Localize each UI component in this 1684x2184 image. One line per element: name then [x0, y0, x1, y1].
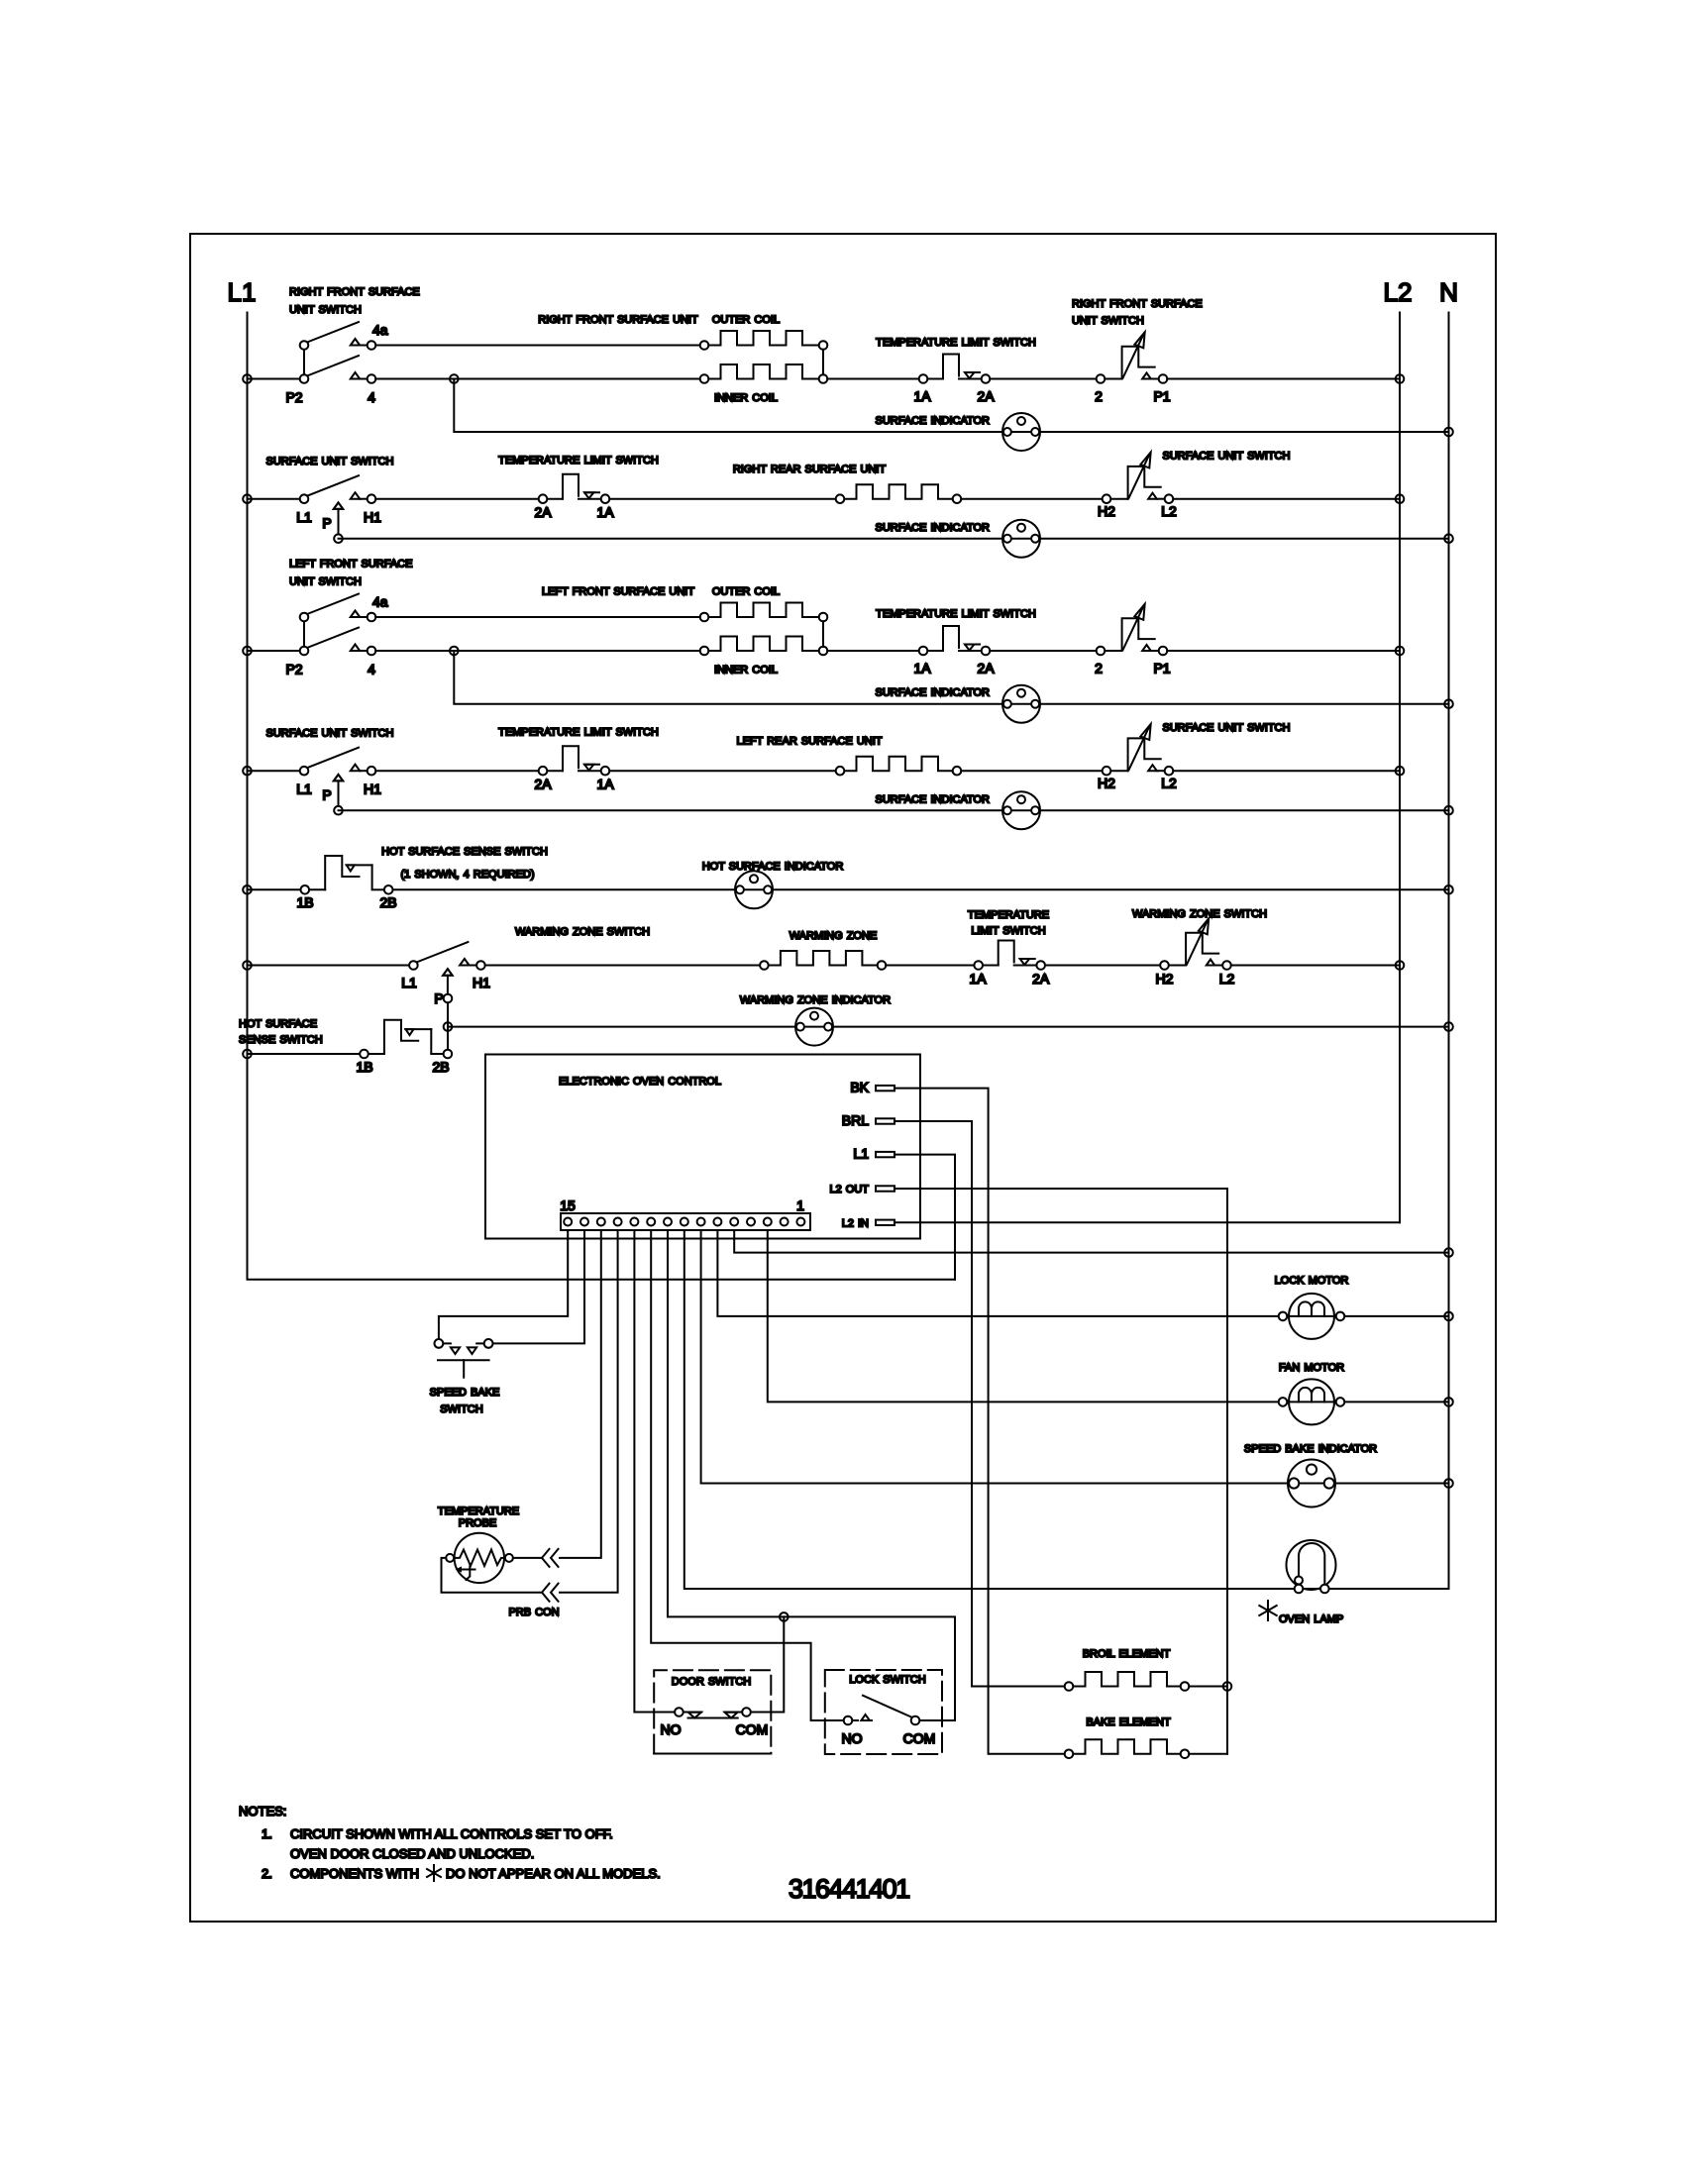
svg-text:CIRCUIT SHOWN WITH ALL CONTROL: CIRCUIT SHOWN WITH ALL CONTROLS SET TO O… [290, 1826, 613, 1841]
wire pin11 to door switch NO [634, 1230, 675, 1713]
svg-text:PRB CON: PRB CON [508, 1607, 559, 1618]
wire BRL to broil element [895, 1121, 1065, 1687]
svg-text:NO: NO [842, 1730, 863, 1746]
wire row3 coil join [822, 621, 824, 646]
wire row2 coil to H2 [961, 498, 1102, 500]
node row6 indicator N [1444, 1022, 1453, 1031]
svg-text:FAN MOTOR: FAN MOTOR [1279, 1362, 1344, 1374]
wire row3 indicator drop [454, 651, 1448, 704]
svg-text:BK: BK [850, 1080, 869, 1095]
svg-text:2A: 2A [534, 777, 552, 792]
wire row2 H1 to 2A [375, 498, 538, 500]
coil row4 left rear surface unit [836, 757, 962, 776]
indicator row4 surface indicator [1002, 791, 1040, 829]
svg-text:LEFT FRONT SURFACE UNIT: LEFT FRONT SURFACE UNIT [542, 586, 694, 598]
svg-text:4: 4 [368, 662, 375, 677]
wire row4 L1 to switch [248, 770, 300, 772]
wire row4 indicator row [339, 809, 1449, 811]
node row6 L2 [1396, 961, 1405, 970]
svg-text:TEMPERATURE: TEMPERATURE [438, 1506, 519, 1517]
wire pin8 to oven lamp row [684, 1230, 1449, 1589]
wire row5 L1 to 1B [248, 888, 301, 890]
wire row2 1A to coil [609, 498, 835, 500]
svg-text:OVEN DOOR CLOSED AND UNLOCKED.: OVEN DOOR CLOSED AND UNLOCKED. [290, 1846, 534, 1861]
wire door COM riser [751, 1616, 785, 1712]
svg-text:BRL: BRL [842, 1112, 869, 1128]
node row2 L2 [1396, 494, 1405, 503]
node row1 L1 [243, 374, 252, 383]
coil row3 inner [700, 637, 828, 656]
wire row4 H1 to 2A [375, 770, 538, 772]
svg-text:P2: P2 [285, 662, 302, 677]
svg-text:1A: 1A [913, 388, 931, 404]
svg-text:WARMING ZONE: WARMING ZONE [789, 930, 878, 942]
svg-text:TEMPERATURE LIMIT SWITCH: TEMPERATURE LIMIT SWITCH [498, 727, 659, 739]
wire row1 indicator drop [454, 379, 1448, 433]
switch row6 temperature limit switch [974, 941, 1045, 970]
svg-text:SPEED BAKE: SPEED BAKE [430, 1387, 500, 1399]
svg-text:1B: 1B [296, 894, 313, 910]
svg-text:2B: 2B [432, 1059, 449, 1075]
wire row4 L2contact to L2 rail [1173, 770, 1400, 772]
node row1 L2 [1396, 374, 1405, 383]
svg-text:SURFACE UNIT SWITCH: SURFACE UNIT SWITCH [266, 728, 394, 740]
svg-text:ELECTRONIC OVEN CONTROL: ELECTRONIC OVEN CONTROL [559, 1076, 721, 1088]
coil row6 warming zone [760, 951, 886, 970]
coil broil element [1065, 1672, 1190, 1691]
node row7 L1 [243, 1050, 252, 1059]
wire row6 coil to 1A [886, 965, 974, 967]
svg-text:SURFACE UNIT SWITCH: SURFACE UNIT SWITCH [266, 456, 394, 468]
node row4 indicator N [1444, 806, 1453, 815]
node row2 indicator N [1444, 534, 1453, 543]
svg-text:INNER COIL: INNER COIL [714, 665, 778, 676]
svg-text:UNIT SWITCH: UNIT SWITCH [289, 304, 362, 316]
svg-text:L1: L1 [296, 509, 312, 525]
svg-text:H2: H2 [1156, 971, 1174, 987]
svg-text:H2: H2 [1098, 776, 1115, 791]
svg-text:2B: 2B [379, 894, 396, 910]
svg-text:SURFACE INDICATOR: SURFACE INDICATOR [876, 687, 991, 699]
contact row2 P pickoff [334, 534, 343, 543]
wire row3 4 to inner coil [375, 650, 699, 652]
svg-text:L1: L1 [853, 1146, 869, 1162]
switch row2 temperature limit switch [539, 474, 610, 503]
wire row4 coil to H2 [961, 770, 1102, 772]
contact row6 P pickoff [444, 994, 453, 1003]
switch row6 warming zone switch (L1/P/H1) [409, 942, 485, 994]
svg-text:SURFACE INDICATOR: SURFACE INDICATOR [876, 522, 991, 534]
symbol asterisk oven lamp [1259, 1601, 1276, 1620]
wire row1 4a to outer coil [375, 345, 699, 347]
coil row3 outer [700, 603, 828, 622]
wire L1 rail [248, 313, 956, 1280]
svg-text:WARMING ZONE SWITCH: WARMING ZONE SWITCH [515, 926, 650, 938]
node row4 L2 [1396, 767, 1405, 776]
svg-text:L2: L2 [1161, 503, 1177, 519]
indicator row2 surface indicator [1002, 520, 1040, 558]
switch row6 right warming zone switch (H2/L2) [1160, 918, 1231, 970]
symbol asterisk note 2 [427, 1865, 441, 1881]
wire probe right lead [513, 1557, 542, 1559]
wire L2 OUT down to bake [895, 1189, 1227, 1754]
wire pin15 to speed bake switch [439, 1230, 568, 1339]
switch row4 surface unit switch (L1/P/H1) [300, 748, 376, 806]
wire pin10 to lock switch NO [651, 1230, 844, 1720]
wire pin9 to lock switch COM [668, 1230, 955, 1720]
svg-text:LOCK MOTOR: LOCK MOTOR [1275, 1275, 1349, 1287]
wire row7 L1 to 1B [248, 1053, 361, 1055]
motor lock motor [1279, 1294, 1345, 1339]
box electronic oven control [485, 1055, 920, 1239]
connector PRB CON chevrons [542, 1549, 559, 1602]
svg-text:1A: 1A [913, 661, 931, 676]
svg-text:1: 1 [796, 1197, 804, 1213]
svg-text:L2: L2 [1161, 776, 1177, 791]
wire row2 L1 to switch [248, 498, 300, 500]
wire row3 L1 to P2 [248, 650, 300, 652]
node fan motor N [1444, 1398, 1453, 1406]
svg-text:4a: 4a [372, 322, 388, 338]
switch lock switch contacts NO/COM [844, 1696, 920, 1725]
svg-text:COM: COM [736, 1721, 769, 1737]
wire row3 4a to outer coil [375, 616, 699, 618]
wire L2 IN to L2 rail [895, 1221, 1400, 1223]
svg-text:N: N [1439, 277, 1458, 307]
wire row1 4 to inner coil [375, 378, 699, 380]
svg-text:L2: L2 [1219, 971, 1235, 987]
box terminal strip [561, 1213, 810, 1230]
coil row2 right rear surface unit [836, 484, 962, 503]
svg-text:BROIL ELEMENT: BROIL ELEMENT [1083, 1648, 1171, 1660]
svg-text:H1: H1 [473, 975, 490, 990]
switch row5 hot surface sense switch (1B/2B) [301, 856, 393, 894]
svg-text:COM: COM [903, 1730, 936, 1746]
wire probe left lead [442, 1558, 543, 1593]
node lock motor N [1444, 1312, 1453, 1321]
switch row4 temperature limit switch [539, 746, 610, 775]
svg-text:SWITCH: SWITCH [440, 1404, 482, 1415]
wire pin13 to probe plug [560, 1230, 601, 1558]
switch row3 right infinite switch (2/P1) [1097, 604, 1168, 656]
switch row1 temperature limit switch [919, 355, 991, 383]
svg-text:DO NOT APPEAR ON ALL MODELS.: DO NOT APPEAR ON ALL MODELS. [446, 1866, 661, 1881]
svg-text:H1: H1 [364, 781, 381, 797]
svg-text:SURFACE UNIT SWITCH: SURFACE UNIT SWITCH [1163, 451, 1291, 463]
wire bake to L2OUT [1189, 1753, 1227, 1755]
coil row1 outer [700, 331, 828, 350]
svg-text:OUTER COIL: OUTER COIL [712, 314, 780, 326]
wire row3 2A to 2 [990, 650, 1096, 652]
node row3 indicator N [1444, 699, 1453, 708]
svg-text:L1: L1 [228, 277, 257, 307]
svg-text:SURFACE UNIT SWITCH: SURFACE UNIT SWITCH [1163, 722, 1291, 734]
wire broil to L2OUT [1189, 1686, 1227, 1688]
svg-text:P: P [322, 515, 331, 531]
wire pin5 to N rail [734, 1230, 1448, 1253]
contact row4 P pickoff [334, 806, 343, 815]
svg-text:P1: P1 [1153, 661, 1170, 676]
switch row1 right-front surface unit switch (P2/4a/4) [300, 322, 376, 383]
svg-text:2: 2 [1095, 388, 1103, 404]
node row6 L1 [243, 961, 252, 970]
wire pin3 to fan motor row [768, 1230, 1449, 1402]
wire row1 coil join [822, 350, 824, 374]
wire row6 2A to H2 [1045, 965, 1160, 967]
svg-text:(1 SHOWN, 4 REQUIRED): (1 SHOWN, 4 REQUIRED) [400, 869, 534, 881]
terminal strip pins 1-15 [564, 1218, 804, 1226]
wire L2 rail [1399, 313, 1401, 1223]
svg-text:LIMIT SWITCH: LIMIT SWITCH [971, 925, 1045, 937]
wire row2 L2contact to L2 rail [1173, 498, 1400, 500]
svg-text:316441401: 316441401 [789, 1874, 909, 1904]
svg-text:4a: 4a [372, 594, 388, 610]
svg-text:H2: H2 [1098, 503, 1115, 519]
box lock switch (dashed) [825, 1670, 942, 1754]
svg-text:2A: 2A [534, 504, 552, 520]
svg-text:L1: L1 [296, 781, 312, 797]
svg-text:NO: NO [661, 1721, 682, 1737]
svg-text:HOT SURFACE SENSE SWITCH: HOT SURFACE SENSE SWITCH [381, 846, 548, 858]
switch door switch contacts NO/COM [675, 1708, 751, 1717]
svg-text:H1: H1 [364, 509, 381, 525]
svg-text:P: P [434, 990, 443, 1006]
svg-text:HOT SURFACE INDICATOR: HOT SURFACE INDICATOR [702, 861, 844, 873]
svg-text:SURFACE INDICATOR: SURFACE INDICATOR [876, 794, 991, 806]
svg-text:RIGHT FRONT SURFACE: RIGHT FRONT SURFACE [289, 286, 420, 298]
wire row1 coil to 1A [827, 378, 918, 380]
svg-text:P2: P2 [285, 389, 302, 405]
indicator row3 surface indicator [1002, 685, 1040, 723]
indicator speed bake indicator [1288, 1460, 1335, 1508]
svg-text:1B: 1B [356, 1059, 372, 1075]
wire row6 P vertical lower [447, 1002, 449, 1049]
svg-text:RIGHT FRONT SURFACE: RIGHT FRONT SURFACE [1072, 298, 1203, 310]
wire row3 P1 to L2 [1167, 650, 1400, 652]
node pin5 N [1444, 1248, 1453, 1257]
svg-text:P: P [322, 787, 331, 803]
svg-text:UNIT SWITCH: UNIT SWITCH [1072, 315, 1144, 327]
lamp oven lamp [1287, 1540, 1336, 1593]
wire L1 terminal to L1 rail [895, 1155, 955, 1280]
wire row6 L2contact to rail [1231, 965, 1400, 967]
svg-text:PROBE: PROBE [459, 1517, 497, 1529]
node broil junction L2OUT [1223, 1682, 1232, 1691]
svg-text:1.: 1. [262, 1826, 272, 1841]
svg-text:15: 15 [560, 1197, 576, 1213]
svg-text:SURFACE INDICATOR: SURFACE INDICATOR [876, 415, 991, 427]
node door COM junction [780, 1612, 789, 1621]
node row1 junction to indicator [450, 374, 459, 383]
wire row4 1A to coil [609, 770, 835, 772]
node row3 L1 [243, 647, 252, 656]
node row6 indicator junction [444, 1022, 453, 1031]
svg-text:LEFT FRONT SURFACE: LEFT FRONT SURFACE [289, 559, 412, 571]
border frame [190, 234, 1496, 1922]
svg-text:L2 IN: L2 IN [842, 1217, 869, 1229]
svg-text:DOOR SWITCH: DOOR SWITCH [672, 1676, 751, 1688]
wire row6 H1 to coil [485, 965, 760, 967]
wire pin6 to lock motor row [717, 1230, 1448, 1316]
wire row1 P1 to L2 [1167, 378, 1400, 380]
svg-text:4: 4 [368, 389, 375, 405]
switch row4 right infinite switch (H2/L2) [1103, 724, 1174, 776]
svg-text:WARMING ZONE SWITCH: WARMING ZONE SWITCH [1132, 908, 1267, 920]
svg-text:L2 OUT: L2 OUT [829, 1184, 869, 1196]
svg-text:L1: L1 [401, 975, 417, 990]
svg-text:2A: 2A [977, 661, 995, 676]
svg-text:1A: 1A [596, 777, 614, 792]
svg-text:LOCK SWITCH: LOCK SWITCH [849, 1674, 925, 1686]
svg-text:2A: 2A [977, 388, 995, 404]
svg-text:RIGHT FRONT SURFACE UNIT: RIGHT FRONT SURFACE UNIT [538, 314, 698, 326]
svg-text:2A: 2A [1032, 971, 1050, 987]
motor fan motor [1279, 1379, 1345, 1424]
switch row3 left-front surface unit switch (P2/4a/4) [300, 594, 376, 656]
switch speed bake switch [435, 1339, 493, 1378]
svg-text:P1: P1 [1153, 388, 1170, 404]
svg-text:INNER COIL: INNER COIL [714, 392, 778, 404]
indicator row1 surface indicator [1002, 413, 1040, 451]
node speed bake indicator N [1444, 1479, 1453, 1488]
svg-text:L2: L2 [1384, 277, 1413, 307]
indicator row6 warming zone indicator [795, 1008, 833, 1046]
wire row1 L1 to P2 [248, 378, 300, 380]
node row5 L1 [243, 885, 252, 894]
svg-text:WARMING ZONE INDICATOR: WARMING ZONE INDICATOR [740, 994, 891, 1006]
indicator row5 hot surface indicator [735, 871, 773, 908]
node row3 L2 [1396, 647, 1405, 656]
svg-text:1A: 1A [969, 971, 987, 987]
svg-text:RIGHT REAR SURFACE UNIT: RIGHT REAR SURFACE UNIT [733, 464, 887, 475]
svg-text:TEMPERATURE LIMIT SWITCH: TEMPERATURE LIMIT SWITCH [876, 337, 1036, 349]
switch row2 surface unit switch (L1/P/H1) [300, 475, 376, 534]
wire pin7 to speed bake indicator row [701, 1230, 1449, 1484]
wire row6 L1 to switch [248, 965, 410, 967]
wire BK to bake element [895, 1089, 1065, 1754]
node row5 N [1444, 885, 1453, 894]
coil bake element [1065, 1739, 1190, 1758]
wire row1 2A to 2 [990, 378, 1096, 380]
coil row1 inner [700, 364, 828, 383]
svg-text:TEMPERATURE: TEMPERATURE [968, 909, 1049, 921]
wire row2 indicator row [339, 538, 1449, 540]
box door switch (dashed) [654, 1670, 771, 1753]
node row1 indicator N [1444, 428, 1453, 437]
svg-text:BAKE ELEMENT: BAKE ELEMENT [1086, 1716, 1171, 1728]
svg-text:OUTER COIL: OUTER COIL [712, 586, 780, 598]
wire row5 2B to N [393, 888, 1449, 890]
switch row1 right infinite switch (2/P1) [1097, 332, 1168, 383]
svg-text:2: 2 [1095, 661, 1103, 676]
svg-text:COMPONENTS WITH: COMPONENTS WITH [290, 1866, 419, 1881]
node row4 L1 [243, 767, 252, 776]
svg-text:1A: 1A [596, 504, 614, 520]
svg-text:NOTES:: NOTES: [239, 1804, 286, 1819]
node row3 junction to indicator [450, 647, 459, 656]
wire row3 coil to 1A [827, 650, 918, 652]
wire row6 indicator row [448, 1026, 1449, 1028]
svg-text:LEFT REAR SURFACE UNIT: LEFT REAR SURFACE UNIT [736, 736, 882, 748]
wire N rail [1448, 313, 1450, 1590]
svg-text:SENSE SWITCH: SENSE SWITCH [239, 1034, 323, 1046]
svg-text:2.: 2. [262, 1866, 272, 1881]
svg-text:SPEED BAKE INDICATOR: SPEED BAKE INDICATOR [1244, 1443, 1377, 1455]
component temperature probe [446, 1533, 513, 1583]
switch row7 hot surface sense switch (1B/2B) [360, 1020, 452, 1059]
svg-text:OVEN LAMP: OVEN LAMP [1279, 1613, 1343, 1625]
svg-text:TEMPERATURE LIMIT SWITCH: TEMPERATURE LIMIT SWITCH [876, 608, 1036, 620]
svg-text:HOT SURFACE: HOT SURFACE [239, 1018, 317, 1030]
wire pin12 to probe plug [560, 1230, 618, 1593]
svg-text:UNIT SWITCH: UNIT SWITCH [289, 576, 362, 588]
wire pin14 to speed bake switch [493, 1230, 585, 1343]
node row2 L1 [243, 494, 252, 503]
switch row3 temperature limit switch [919, 626, 991, 655]
switch row2 right infinite switch (H2/L2) [1103, 453, 1174, 504]
svg-text:TEMPERATURE LIMIT SWITCH: TEMPERATURE LIMIT SWITCH [498, 455, 659, 467]
